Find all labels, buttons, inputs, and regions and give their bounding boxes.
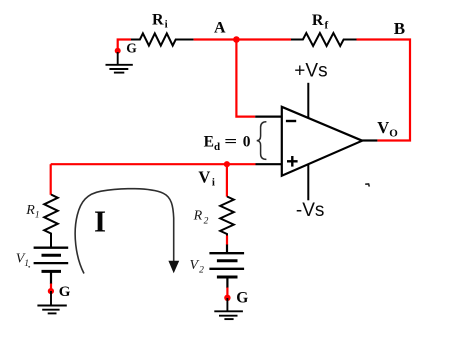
svg-text:-Vs: -Vs <box>296 200 325 221</box>
stray dot after V1 <box>28 266 30 268</box>
svg-text:A: A <box>214 20 226 37</box>
svg-text:+Vs: +Vs <box>294 60 327 81</box>
resistor Rf <box>291 33 357 46</box>
wire red segment above G2 dot <box>50 284 52 292</box>
stray tick mark <box>365 184 369 187</box>
battery V1 <box>34 248 69 272</box>
wire red from top-left ground up to Ri <box>118 40 131 52</box>
resistor R1 <box>44 195 58 248</box>
node G2 dot <box>48 288 54 294</box>
wire red segment above G3 dot <box>226 288 228 296</box>
svg-text:Ed=0: Ed=0 <box>204 133 251 152</box>
-Vs supply line <box>307 164 309 200</box>
svg-text:G: G <box>236 289 248 306</box>
wire battery V1 to ground <box>50 271 52 284</box>
svg-text:B: B <box>394 19 405 38</box>
ground GND2 <box>37 291 66 313</box>
wire black inverting input lead <box>255 115 282 117</box>
wire red Vi node down to R2 <box>226 164 228 197</box>
node G3 dot <box>224 295 230 301</box>
wire red Ri to node A <box>194 38 291 40</box>
wire battery V2 down <box>226 277 228 288</box>
op-amp minus sign <box>286 120 296 122</box>
ground GND1 <box>106 52 133 73</box>
svg-text:G: G <box>59 284 71 300</box>
wire red plus-input rail from left corner through Vi node <box>51 163 256 165</box>
svg-text:G: G <box>126 40 137 55</box>
wire black non-inverting input lead <box>256 163 282 165</box>
resistor Ri <box>131 33 194 45</box>
svg-text:I: I <box>94 203 106 238</box>
resistor R2 <box>220 197 234 238</box>
+Vs supply line <box>307 83 309 119</box>
wire black op-amp output lead <box>362 139 377 141</box>
brace for Ed <box>257 122 267 160</box>
current loop I curve <box>75 189 174 274</box>
wire black into battery V2 <box>226 245 228 254</box>
op-amp plus sign <box>287 156 298 167</box>
node Vi dot <box>224 161 230 167</box>
battery V2 <box>209 253 244 277</box>
node G1 dot <box>115 48 121 54</box>
op-amp U1 triangle <box>282 107 362 176</box>
wire red Rf to node B and down to output <box>357 40 411 141</box>
node A dot <box>233 36 240 43</box>
wire red R2 to battery V2 <box>226 236 228 246</box>
wire red node A down to inverting input <box>236 40 255 117</box>
ground GND3 <box>214 298 243 319</box>
wire red left branch down from corner <box>50 164 52 195</box>
current loop arrowhead <box>168 261 179 273</box>
